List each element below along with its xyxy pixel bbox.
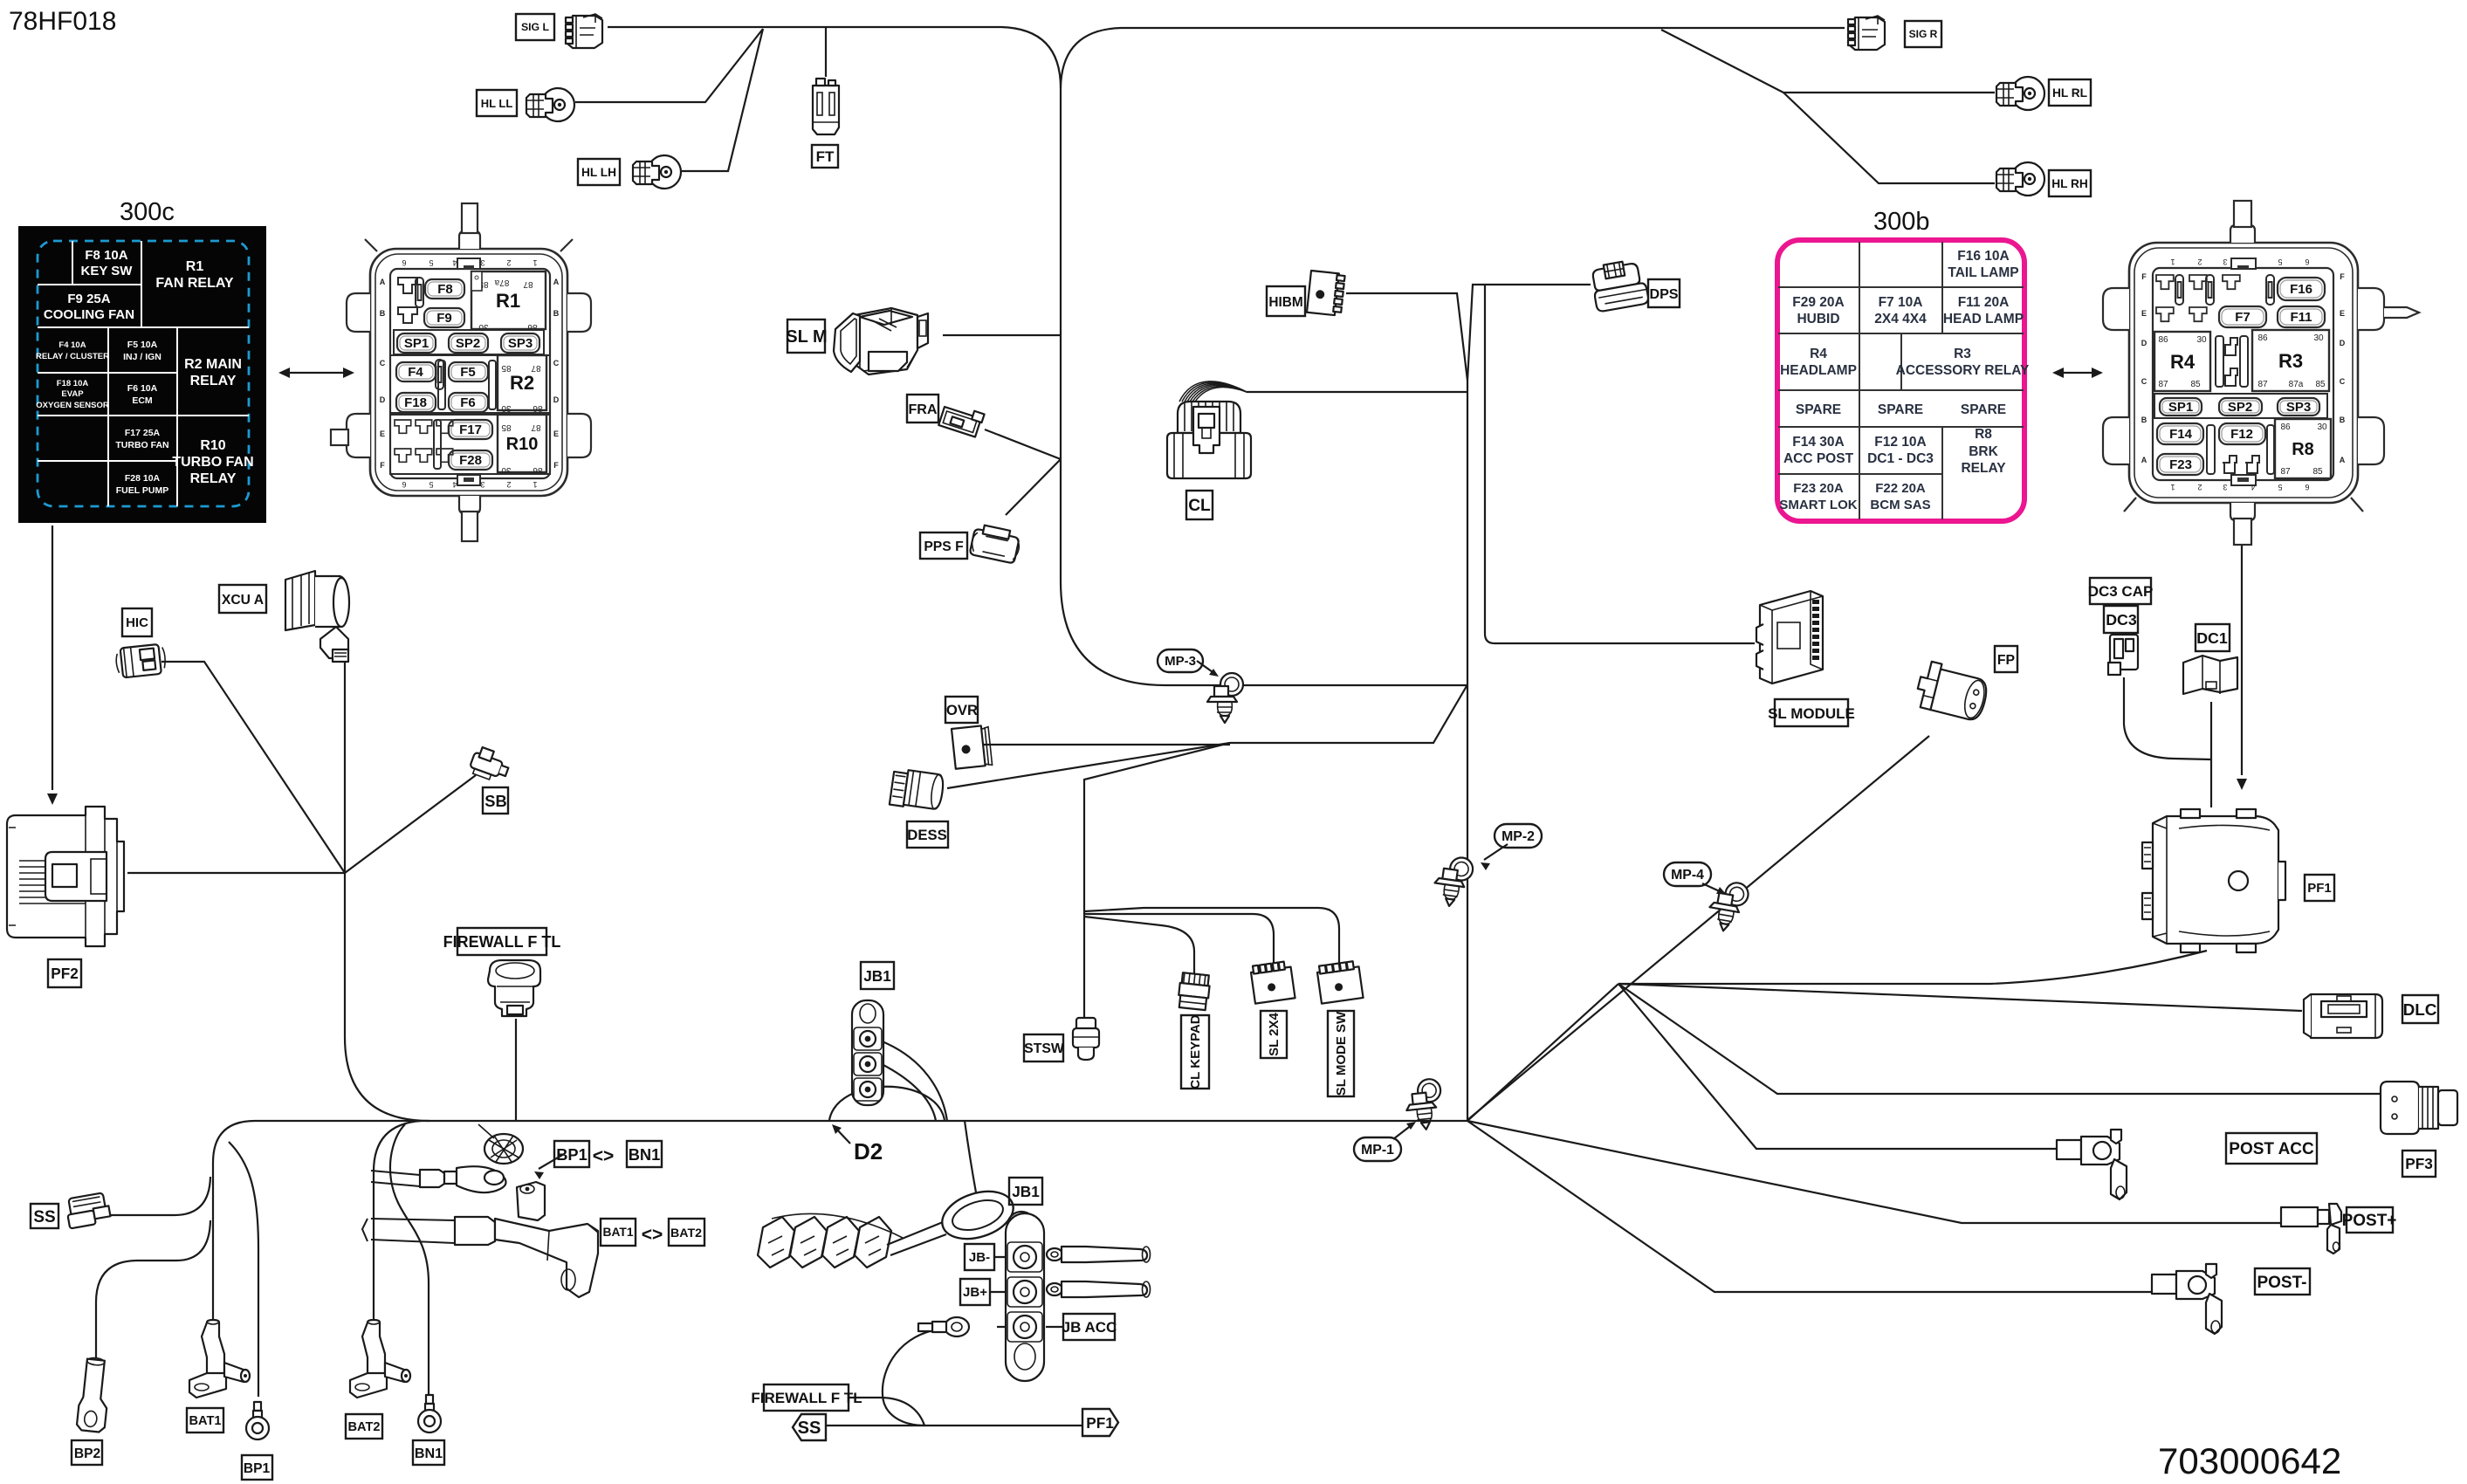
wire junction to second fan bbox=[1467, 984, 1618, 1121]
svg-text:POST ACC: POST ACC bbox=[2229, 1140, 2314, 1158]
svg-text:C: C bbox=[2340, 377, 2346, 386]
svg-text:B: B bbox=[553, 309, 560, 318]
svg-text:6: 6 bbox=[402, 480, 406, 489]
terminal BN1 ring bbox=[418, 1395, 441, 1432]
svg-text:78HF018: 78HF018 bbox=[9, 7, 116, 36]
svg-text:30: 30 bbox=[501, 403, 512, 413]
label DC1 bbox=[2196, 624, 2230, 651]
wire HIC branch bbox=[161, 662, 345, 873]
svg-text:SIG L: SIG L bbox=[521, 21, 550, 33]
svg-text:PPS F: PPS F bbox=[924, 539, 964, 554]
svg-text:D: D bbox=[380, 395, 386, 404]
wire HL LL branch bbox=[575, 29, 763, 102]
label BAT2 (pair) bbox=[669, 1219, 704, 1246]
svg-text:F: F bbox=[553, 461, 559, 470]
label DC3 bbox=[2104, 606, 2138, 633]
svg-text:SP1: SP1 bbox=[2168, 400, 2193, 415]
connector HL RH bbox=[1996, 162, 2044, 196]
svg-text:MP-3: MP-3 bbox=[1165, 654, 1196, 669]
svg-text:F6: F6 bbox=[460, 395, 476, 410]
svg-text:R4: R4 bbox=[2170, 351, 2196, 373]
wire JB- link bbox=[993, 1256, 1011, 1258]
label POST+ bbox=[2342, 1207, 2397, 1233]
svg-text:3: 3 bbox=[480, 258, 484, 267]
connector STSW bbox=[1073, 1018, 1099, 1060]
relay R1 bbox=[471, 271, 546, 332]
wire POST- branch bbox=[1467, 1121, 2152, 1292]
svg-text:300b: 300b bbox=[1873, 208, 1930, 236]
wire POST ACC branch bbox=[1618, 984, 2057, 1149]
svg-text:ACC POST: ACC POST bbox=[1783, 451, 1854, 466]
connector DC3 bbox=[2108, 635, 2138, 675]
svg-text:HL LL: HL LL bbox=[481, 97, 513, 110]
svg-text:87: 87 bbox=[531, 363, 541, 373]
clip MP-2 bbox=[1432, 855, 1474, 909]
junction block JB1 lower assembly bbox=[758, 1183, 1151, 1381]
svg-text:FT: FT bbox=[816, 148, 835, 165]
svg-text:D: D bbox=[2141, 339, 2147, 347]
clip MP-1 bbox=[1404, 1078, 1445, 1131]
svg-text:F16 10A: F16 10A bbox=[1957, 249, 2009, 264]
label CL KEYPAD bbox=[1181, 1014, 1209, 1089]
left fuse box drawing bbox=[331, 203, 591, 541]
connector SL 2X4 bbox=[1250, 961, 1295, 1004]
svg-text:R3: R3 bbox=[2278, 350, 2303, 372]
svg-text:87: 87 bbox=[531, 423, 541, 432]
wire FT tap bbox=[825, 28, 827, 77]
label SL MODULE bbox=[1768, 699, 1855, 726]
svg-text:HL RH: HL RH bbox=[2051, 177, 2088, 190]
label FP bbox=[1995, 646, 2017, 672]
svg-text:SP1: SP1 bbox=[404, 336, 429, 351]
connector PF1 bbox=[2142, 809, 2285, 952]
terminal BAT1 bbox=[189, 1320, 250, 1398]
connector HL RL bbox=[1996, 77, 2044, 110]
connector CL bbox=[1167, 381, 1251, 478]
svg-text:EVAP: EVAP bbox=[61, 389, 84, 399]
wire top right harness to SIG R bbox=[1061, 28, 1121, 88]
svg-text:F12: F12 bbox=[2230, 427, 2253, 442]
connector HL LL bbox=[526, 88, 574, 121]
wire BN1 branch bbox=[390, 1124, 429, 1397]
label STSW bbox=[1024, 1034, 1064, 1061]
svg-text:SP2: SP2 bbox=[456, 336, 480, 351]
label FIREWALL F TL bottom bbox=[751, 1384, 862, 1411]
label BAT1 bbox=[187, 1408, 223, 1432]
wire branch to SL MODE SW bbox=[1084, 908, 1339, 969]
svg-text:F4: F4 bbox=[408, 365, 423, 380]
wire FIREWALL F TL leader bottom bbox=[847, 1398, 924, 1426]
svg-text:R1: R1 bbox=[496, 290, 520, 312]
svg-text:F5: F5 bbox=[460, 365, 476, 380]
svg-text:87a: 87a bbox=[494, 278, 509, 287]
wire HIBM branch bbox=[1346, 293, 1467, 381]
fuse SP1 bbox=[397, 333, 436, 353]
label DC3 CAP bbox=[2088, 578, 2154, 604]
svg-text:6: 6 bbox=[402, 258, 406, 267]
connector DLC bbox=[2304, 994, 2382, 1038]
label JB- bbox=[965, 1244, 994, 1270]
svg-text:FIREWALL F TL: FIREWALL F TL bbox=[443, 933, 561, 951]
svg-text:87: 87 bbox=[2257, 380, 2268, 389]
connector HIC bbox=[115, 643, 167, 678]
fuse SP1 bbox=[2160, 398, 2202, 416]
svg-text:SP3: SP3 bbox=[2286, 400, 2311, 415]
svg-text:POST-: POST- bbox=[2257, 1274, 2306, 1292]
label SL 2X4 bbox=[1261, 1011, 1287, 1058]
BP1 pair leader bbox=[539, 1154, 564, 1169]
wire JB1 upper drop curves bbox=[880, 1041, 947, 1121]
svg-text:2: 2 bbox=[2197, 258, 2202, 266]
svg-text:R8: R8 bbox=[2292, 440, 2314, 459]
svg-text:HEADLAMP: HEADLAMP bbox=[1780, 363, 1857, 378]
svg-text:BAT2: BAT2 bbox=[670, 1226, 702, 1240]
svg-text:2: 2 bbox=[2197, 483, 2202, 491]
fuse F17 bbox=[449, 420, 492, 439]
D2 grommet loop bbox=[829, 1087, 945, 1120]
fuse F6 bbox=[449, 393, 488, 412]
connector DESS bbox=[890, 768, 945, 812]
svg-text:BP1: BP1 bbox=[244, 1461, 271, 1476]
svg-text:5: 5 bbox=[2278, 483, 2282, 491]
label SIG L bbox=[516, 14, 554, 40]
label PPS F bbox=[920, 532, 967, 559]
label JB+ bbox=[960, 1279, 990, 1305]
svg-text:BP1: BP1 bbox=[556, 1145, 588, 1164]
connector SL MODULE bbox=[1756, 591, 1823, 684]
wire XCU A drop bbox=[345, 661, 429, 1121]
label BP2 bbox=[72, 1440, 102, 1465]
fuse F28 bbox=[449, 450, 492, 470]
connector SS bbox=[65, 1192, 111, 1229]
label DESS bbox=[907, 821, 948, 848]
svg-text:R4: R4 bbox=[1810, 347, 1827, 361]
svg-text:D: D bbox=[553, 395, 560, 404]
svg-text:SL M: SL M bbox=[786, 327, 827, 347]
svg-text:R2: R2 bbox=[510, 372, 534, 394]
MP-2 leader bbox=[1484, 844, 1508, 860]
svg-text:POST+: POST+ bbox=[2342, 1212, 2397, 1230]
svg-text:ECM: ECM bbox=[132, 395, 153, 406]
connector SIG R bbox=[1848, 16, 1885, 50]
svg-text:JB ACC: JB ACC bbox=[1062, 1319, 1117, 1336]
wire vertical trunk center bbox=[1467, 381, 1468, 1121]
svg-text:SMART LOK: SMART LOK bbox=[1779, 498, 1857, 512]
label POST ACC bbox=[2226, 1133, 2317, 1164]
svg-text:KEY SW: KEY SW bbox=[81, 264, 134, 278]
svg-text:F12 10A: F12 10A bbox=[1874, 435, 1926, 450]
svg-text:R1: R1 bbox=[186, 259, 204, 274]
svg-text:BAT1: BAT1 bbox=[189, 1414, 221, 1428]
svg-text:1: 1 bbox=[533, 258, 537, 267]
label HIBM bbox=[1267, 286, 1305, 316]
clip MP-4 bbox=[1706, 879, 1749, 934]
svg-text:30: 30 bbox=[2317, 423, 2327, 432]
wire FRA branch bbox=[985, 429, 1061, 459]
svg-text:F6 10A: F6 10A bbox=[127, 383, 158, 394]
svg-text:B: B bbox=[2141, 416, 2147, 424]
svg-text:MP-4: MP-4 bbox=[1671, 868, 1704, 883]
svg-text:F17 25A: F17 25A bbox=[125, 428, 161, 438]
label OVR bbox=[945, 697, 978, 723]
svg-text:1: 1 bbox=[2170, 483, 2175, 491]
fuse SP3 bbox=[2278, 398, 2319, 416]
label HL LL bbox=[477, 90, 517, 116]
wire DC1 drop bbox=[2210, 702, 2212, 807]
label BN1 (pair) bbox=[627, 1141, 662, 1167]
svg-text:HL RL: HL RL bbox=[2052, 86, 2087, 100]
illustration BAT1-BAT2 cable lug bbox=[362, 1217, 598, 1297]
svg-text:BRK: BRK bbox=[1969, 444, 1998, 459]
wire SS to PF1 bottom line bbox=[823, 1425, 1084, 1426]
fuse F14 bbox=[2157, 423, 2203, 444]
terminal BP2 bbox=[76, 1357, 112, 1432]
label SL M bbox=[786, 319, 827, 353]
wire trunk to BAT1 bbox=[213, 1121, 255, 1323]
svg-text:E: E bbox=[380, 429, 385, 438]
wire shackle drop bbox=[965, 1121, 976, 1192]
wire POST+ branch bbox=[1467, 1121, 2281, 1223]
svg-text:3: 3 bbox=[2223, 258, 2227, 266]
svg-text:FIREWALL F TL: FIREWALL F TL bbox=[751, 1390, 862, 1406]
svg-text:5: 5 bbox=[429, 480, 433, 489]
label SL MODE SW bbox=[1328, 1011, 1354, 1096]
relay R8 bbox=[2275, 419, 2331, 478]
arrow 300c table to PF2 bbox=[52, 526, 53, 790]
fuse F5 bbox=[449, 362, 488, 381]
svg-text:MP-2: MP-2 bbox=[1502, 829, 1535, 844]
label XCU A bbox=[219, 585, 266, 613]
svg-text:SP3: SP3 bbox=[508, 336, 533, 351]
svg-text:F: F bbox=[2340, 272, 2345, 281]
connector SIG L bbox=[566, 14, 602, 48]
svg-text:FP: FP bbox=[1997, 653, 2015, 668]
fuse F11 bbox=[2278, 306, 2325, 327]
svg-text:SS: SS bbox=[33, 1208, 55, 1226]
svg-text:R3: R3 bbox=[1954, 347, 1971, 361]
wire STSW drop bbox=[1084, 743, 1230, 1017]
svg-text:TURBO FAN: TURBO FAN bbox=[115, 440, 168, 450]
clip MP-3 bbox=[1207, 673, 1243, 723]
wire CL branch bbox=[1247, 391, 1467, 393]
svg-text:JB1: JB1 bbox=[1012, 1183, 1040, 1200]
MP-3 leader bbox=[1197, 661, 1215, 674]
svg-text:BN1: BN1 bbox=[415, 1446, 443, 1461]
terminal POST ACC bbox=[2057, 1130, 2127, 1199]
svg-text:6: 6 bbox=[2305, 483, 2309, 491]
svg-text:BCM SAS: BCM SAS bbox=[1870, 498, 1930, 512]
label JB1 upper bbox=[861, 962, 894, 989]
fuse F9 bbox=[424, 308, 464, 327]
connector HL LH bbox=[633, 155, 681, 189]
svg-text:F23 20A: F23 20A bbox=[1793, 481, 1844, 496]
svg-text:COOLING FAN: COOLING FAN bbox=[44, 307, 134, 322]
svg-text:F16: F16 bbox=[2290, 282, 2312, 297]
wire PF2 branch bbox=[127, 872, 345, 874]
svg-text:C: C bbox=[380, 359, 386, 368]
svg-text:F23: F23 bbox=[2169, 457, 2192, 472]
svg-text:85: 85 bbox=[2190, 380, 2201, 389]
svg-text:4: 4 bbox=[452, 258, 457, 267]
connector PF2 bbox=[7, 807, 124, 946]
svg-text:STSW: STSW bbox=[1024, 1041, 1064, 1056]
MP-4 leader bbox=[1702, 883, 1721, 892]
svg-text:F8: F8 bbox=[437, 282, 453, 297]
fuse F7 bbox=[2219, 306, 2266, 327]
svg-text:F22 20A: F22 20A bbox=[1875, 481, 1926, 496]
svg-text:R10: R10 bbox=[506, 435, 539, 454]
svg-text:1: 1 bbox=[2170, 258, 2175, 266]
connector SB bbox=[468, 745, 512, 784]
wire JB ACC link bbox=[997, 1326, 1063, 1328]
wire SL M tap bbox=[943, 334, 1061, 336]
label FT bbox=[812, 145, 838, 168]
svg-text:E: E bbox=[2141, 309, 2147, 318]
svg-text:DLC: DLC bbox=[2403, 1001, 2437, 1020]
svg-text:JB+: JB+ bbox=[963, 1285, 987, 1300]
svg-text:R10: R10 bbox=[200, 438, 225, 453]
connector SL M bbox=[834, 308, 928, 374]
svg-text:CL KEYPAD: CL KEYPAD bbox=[1188, 1014, 1203, 1089]
relay R4 bbox=[2154, 332, 2210, 391]
label DPS bbox=[1648, 279, 1680, 307]
svg-text:ACCESSORY RELAY: ACCESSORY RELAY bbox=[1896, 363, 2030, 378]
svg-text:B: B bbox=[380, 309, 386, 318]
wire JB+ link bbox=[989, 1291, 1011, 1293]
connector FP bbox=[1914, 660, 1991, 722]
svg-text:2: 2 bbox=[506, 480, 511, 489]
right fuse box drawing bbox=[2103, 201, 2419, 545]
svg-text:BP2: BP2 bbox=[74, 1446, 101, 1461]
svg-text:A: A bbox=[2141, 456, 2147, 464]
wire PF3 branch bbox=[1618, 984, 2381, 1094]
label HL LH bbox=[578, 159, 620, 185]
relay R3 bbox=[2252, 330, 2329, 391]
svg-text:D2: D2 bbox=[854, 1138, 883, 1165]
label SS hexagon bbox=[793, 1414, 826, 1440]
svg-text:DESS: DESS bbox=[907, 827, 946, 843]
svg-text:F7 10A: F7 10A bbox=[1879, 295, 1923, 310]
svg-text:86: 86 bbox=[2280, 423, 2291, 432]
svg-text:87a: 87a bbox=[2289, 380, 2304, 389]
wire DLC branch bbox=[1618, 984, 2302, 1011]
svg-text:F28: F28 bbox=[459, 453, 482, 468]
wire branch to SL 2X4 bbox=[1084, 914, 1274, 969]
terminal POST- bbox=[2152, 1264, 2222, 1334]
connector HIBM bbox=[1307, 271, 1345, 316]
svg-text:HEAD LAMP: HEAD LAMP bbox=[1943, 312, 2024, 326]
label FIREWALL F TL bbox=[443, 928, 561, 955]
svg-text:RELAY / CLUSTER: RELAY / CLUSTER bbox=[36, 352, 109, 361]
svg-text:F9: F9 bbox=[436, 311, 452, 326]
svg-text:BAT1: BAT1 bbox=[602, 1226, 633, 1239]
svg-text:87: 87 bbox=[523, 279, 533, 289]
relay R2 bbox=[498, 355, 546, 413]
fuse F4 bbox=[396, 362, 436, 381]
svg-text:<>: <> bbox=[642, 1225, 663, 1245]
svg-text:B: B bbox=[2340, 416, 2346, 424]
svg-text:86: 86 bbox=[533, 403, 543, 413]
label PF2 bbox=[48, 959, 81, 987]
wire SB branch bbox=[345, 775, 476, 873]
label HL RH bbox=[2049, 170, 2091, 196]
fuse SP2 bbox=[2219, 398, 2262, 416]
svg-text:3: 3 bbox=[2223, 483, 2227, 491]
wire OVR branch bbox=[983, 744, 1230, 745]
svg-text:DPS: DPS bbox=[1649, 286, 1678, 302]
double arrow 300b to right fuse box bbox=[2060, 372, 2093, 374]
svg-text:F: F bbox=[380, 461, 385, 470]
wire main top harness from SIG L to vertical trunk bbox=[608, 27, 1467, 685]
svg-text:86: 86 bbox=[2158, 335, 2168, 345]
fuse F12 bbox=[2219, 423, 2265, 444]
svg-text:E: E bbox=[2340, 309, 2345, 318]
svg-text:FAN RELAY: FAN RELAY bbox=[155, 276, 234, 291]
svg-text:DC1 - DC3: DC1 - DC3 bbox=[1867, 451, 1934, 466]
svg-text:RELAY: RELAY bbox=[190, 374, 237, 388]
svg-text:SL MODE SW: SL MODE SW bbox=[1334, 1011, 1349, 1096]
label FRA bbox=[907, 395, 938, 423]
svg-text:DC3 CAP: DC3 CAP bbox=[2088, 583, 2154, 600]
wire DESS branch bbox=[947, 743, 1230, 788]
label MP-3 bbox=[1158, 649, 1203, 672]
fuse SP3 bbox=[501, 333, 539, 353]
label BAT1 (pair) bbox=[601, 1219, 636, 1246]
svg-text:TAIL LAMP: TAIL LAMP bbox=[1948, 265, 2018, 280]
svg-text:2: 2 bbox=[506, 258, 511, 267]
svg-text:F4 10A: F4 10A bbox=[58, 340, 86, 350]
wire HL RH branch bbox=[1783, 93, 1995, 183]
svg-text:TURBO FAN: TURBO FAN bbox=[172, 455, 253, 470]
double arrow 300c to left fuse box bbox=[288, 372, 345, 374]
wire branch to CL KEYPAD bbox=[1084, 917, 1194, 973]
svg-text:F7: F7 bbox=[2235, 310, 2251, 325]
svg-text:SIG R: SIG R bbox=[1909, 28, 1938, 40]
D2 leader arrow bbox=[835, 1127, 850, 1144]
label MP-1 bbox=[1354, 1137, 1401, 1161]
svg-text:R8: R8 bbox=[1975, 427, 1992, 442]
wire FIREWALL F TL drop bbox=[515, 1019, 517, 1121]
label SS bbox=[31, 1204, 58, 1228]
svg-text:C: C bbox=[2141, 377, 2147, 386]
label SIG R bbox=[1905, 21, 1941, 47]
svg-text:F5 10A: F5 10A bbox=[127, 340, 158, 350]
wire PPS F branch bbox=[1006, 459, 1061, 515]
connector OVR bbox=[952, 725, 993, 769]
svg-text:RELAY: RELAY bbox=[190, 471, 237, 486]
svg-text:SL MODULE: SL MODULE bbox=[1768, 705, 1855, 722]
svg-text:A: A bbox=[2340, 456, 2346, 464]
svg-text:E: E bbox=[553, 429, 559, 438]
svg-text:F18 10A: F18 10A bbox=[57, 379, 89, 388]
wire SL MODULE branch bbox=[1485, 285, 1755, 643]
svg-text:86: 86 bbox=[2257, 333, 2268, 343]
svg-text:OVR: OVR bbox=[946, 702, 978, 718]
svg-text:FRA: FRA bbox=[908, 402, 937, 417]
svg-text:2X4 4X4: 2X4 4X4 bbox=[1874, 312, 1927, 326]
wire PF1 feed bbox=[1618, 951, 2207, 984]
svg-text:85: 85 bbox=[2312, 467, 2323, 477]
svg-text:30: 30 bbox=[2196, 335, 2207, 345]
svg-text:HIBM: HIBM bbox=[1268, 295, 1302, 310]
fuse F8 bbox=[425, 279, 464, 299]
magenta table 300b body bbox=[1777, 240, 2030, 521]
wire DPS branch bbox=[1467, 285, 1591, 381]
label BN1 bbox=[413, 1440, 444, 1465]
fuse F16 bbox=[2278, 278, 2325, 300]
svg-text:C: C bbox=[553, 359, 560, 368]
label PF1 hexagon bbox=[1082, 1409, 1118, 1436]
